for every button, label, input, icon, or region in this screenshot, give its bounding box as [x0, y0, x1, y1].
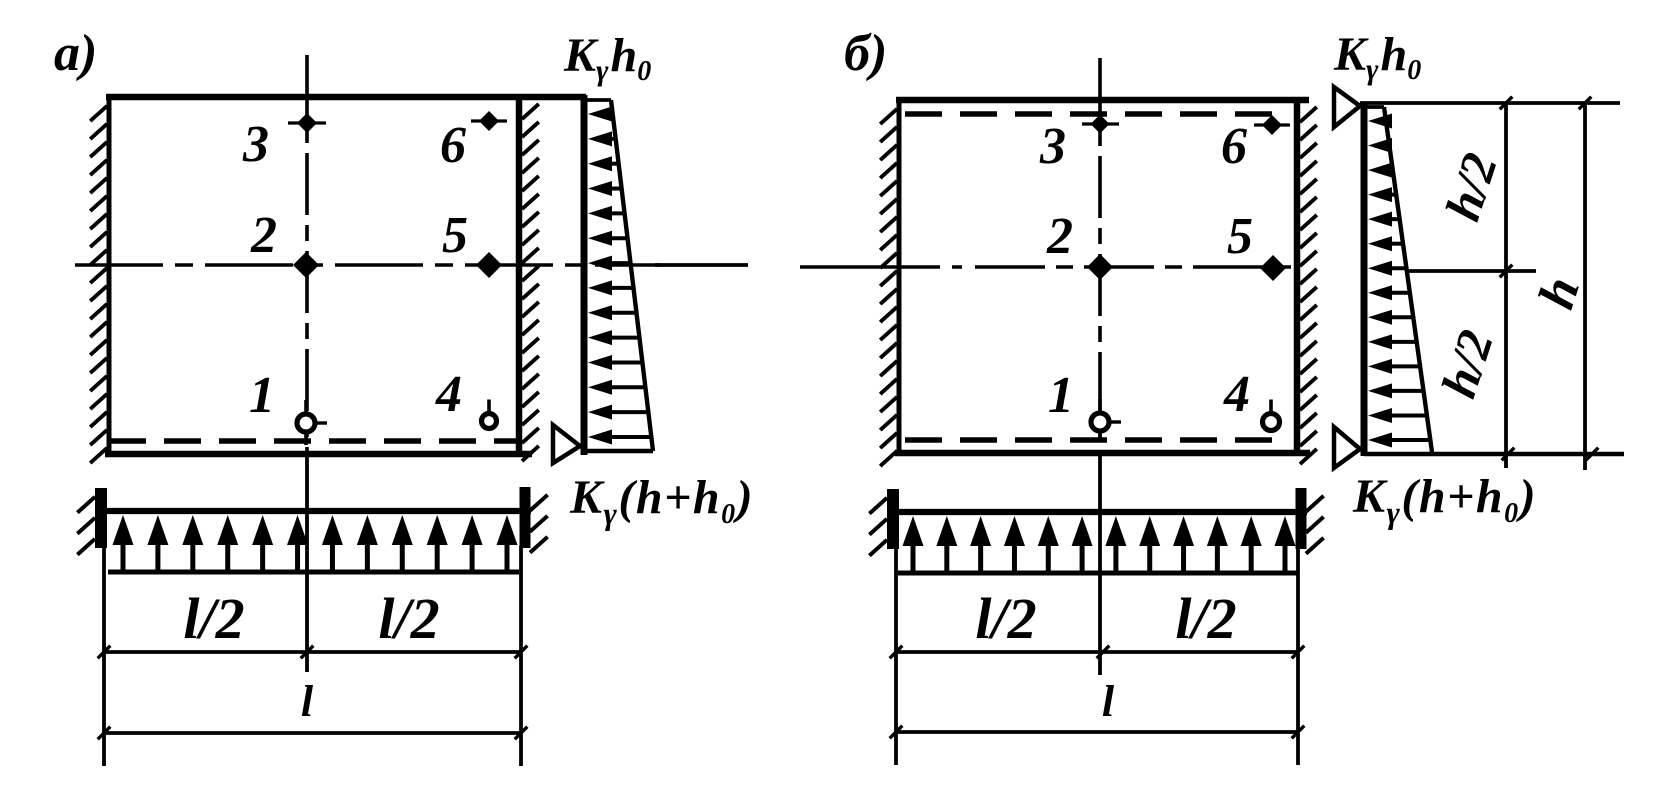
node 1 (b)	[1091, 399, 1121, 440]
label l/2 left (a)	[183, 586, 244, 651]
hatching: plate a right wall	[522, 104, 539, 461]
label 3 (b)	[1039, 118, 1066, 175]
svg-text:3: 3	[242, 116, 269, 173]
svg-text:1: 1	[249, 367, 275, 424]
beam load arrows a	[113, 515, 518, 572]
load baseline b	[1361, 104, 1368, 456]
svg-text:4: 4	[435, 366, 462, 423]
dim line a l	[104, 731, 521, 735]
label 4 (a)	[435, 366, 462, 423]
beam right support b	[1301, 488, 1324, 554]
label h/2 upper (b)	[1434, 146, 1508, 227]
panel label б)	[844, 25, 887, 82]
label 1 (a)	[249, 367, 275, 424]
svg-text:3: 3	[1039, 118, 1066, 175]
svg-text:1: 1	[1048, 367, 1074, 424]
dim ticks a l	[98, 727, 528, 740]
dashed line a (bottom)	[109, 438, 519, 444]
node 4 (b)	[1263, 400, 1280, 431]
dim tick b mid	[1500, 265, 1513, 278]
dim line b l	[896, 730, 1298, 734]
svg-text:5: 5	[1227, 208, 1253, 265]
vertical centerline b	[1098, 58, 1102, 675]
node 5 (b)	[1260, 255, 1286, 281]
node 2 (b)	[1087, 254, 1113, 280]
load trapezoid a top edge	[584, 98, 611, 102]
load trapezoid b slant edge	[1384, 107, 1432, 452]
beam a	[99, 508, 531, 514]
plate a: bottom edge	[105, 451, 532, 458]
label K_gamma*(h+h0) (b)	[1352, 470, 1537, 530]
mid line b (h/2)	[1408, 269, 1536, 273]
label 6 (a)	[440, 117, 466, 174]
svg-text:l/2: l/2	[1175, 586, 1236, 651]
svg-text:2: 2	[1046, 208, 1073, 265]
dim ticks a l/2	[98, 646, 528, 659]
extension line a left	[102, 546, 106, 766]
vertical centerline a	[305, 55, 309, 672]
dim ticks b l/2	[890, 646, 1305, 659]
label 5 (b)	[1227, 208, 1253, 265]
extension line b right	[1296, 547, 1300, 765]
label 6 (b)	[1221, 118, 1247, 175]
bottom line b (h dims)	[1364, 452, 1624, 457]
label l/2 right (b)	[1175, 586, 1236, 651]
svg-text:l: l	[1102, 677, 1115, 726]
label 2 (b)	[1046, 208, 1073, 265]
plate a: left wall	[107, 94, 112, 457]
beam left support a	[77, 488, 101, 555]
hatching: plate b right wall	[1300, 107, 1317, 464]
load baseline a	[581, 95, 588, 455]
dim line b l/2	[896, 650, 1298, 654]
label l/2 right (a)	[378, 586, 439, 651]
extension line a right	[519, 546, 523, 766]
label 3 (a)	[242, 116, 269, 173]
load arrows a	[588, 107, 651, 445]
beam load base a	[108, 570, 519, 575]
svg-text:6: 6	[440, 117, 466, 174]
horizontal centerline b	[800, 265, 962, 269]
label l (b)	[1102, 677, 1115, 726]
svg-text:2: 2	[250, 207, 277, 264]
h/2 dim line b	[1504, 103, 1508, 468]
svg-text:l/2: l/2	[975, 586, 1036, 651]
beam right support a	[525, 487, 548, 553]
beam left support b	[869, 489, 893, 556]
beam b	[889, 509, 1307, 515]
svg-text:l/2: l/2	[378, 586, 439, 651]
plate b: bottom edge	[895, 450, 1310, 457]
label 2 (a)	[250, 207, 277, 264]
dim ticks b bottom	[1502, 448, 1599, 461]
plate b: left wall	[897, 97, 902, 456]
horizontal centerline a	[75, 263, 748, 267]
beam load arrows b	[903, 516, 1296, 573]
load arrows b	[1368, 114, 1430, 448]
support triangle b (top)	[1334, 87, 1360, 127]
node 3 (a)	[288, 113, 326, 133]
plate b: top edge	[896, 97, 1309, 104]
svg-text:l/2: l/2	[183, 586, 244, 651]
node 3 (b)	[1082, 115, 1119, 134]
label h (b)	[1528, 270, 1591, 315]
h dim line b	[1583, 103, 1587, 470]
node 6 (b)	[1254, 115, 1290, 135]
label 1 (b)	[1048, 367, 1074, 424]
svg-text:5: 5	[442, 207, 468, 264]
node 4 (a)	[482, 400, 497, 429]
plate b: right wall	[1294, 97, 1301, 455]
svg-text:б): б)	[844, 25, 887, 82]
label 4 (b)	[1223, 366, 1250, 423]
hatching: plate a left wall	[90, 106, 107, 463]
dim ticks b top	[1500, 97, 1592, 110]
node 1 (a)	[297, 400, 327, 445]
beam load base b	[898, 571, 1297, 576]
load trapezoid b top edge	[1364, 105, 1384, 109]
svg-text:6: 6	[1221, 118, 1247, 175]
node 5 (a)	[476, 252, 502, 278]
top line b (h dims)	[1360, 101, 1620, 105]
load trapezoid a slant edge	[611, 100, 653, 451]
label l/2 left (b)	[975, 586, 1036, 651]
plate a: right wall	[516, 94, 523, 456]
svg-text:l: l	[301, 677, 314, 726]
dashed line b (top)	[905, 111, 1290, 117]
label K_gamma*h0 (a)	[563, 29, 651, 87]
dashed line b (bottom)	[905, 437, 1290, 443]
load trapezoid a bottom edge	[584, 449, 653, 454]
label l (a)	[301, 677, 314, 726]
panel label а)	[54, 25, 97, 82]
node 2 (a)	[293, 252, 319, 278]
svg-text:4: 4	[1223, 366, 1250, 423]
label h/2 lower (b)	[1430, 323, 1504, 404]
label K_gamma*h0 (b)	[1333, 28, 1421, 86]
svg-text:а): а)	[54, 25, 97, 82]
hatching: plate b left wall	[880, 109, 897, 466]
node 6 (a)	[471, 111, 507, 131]
plate a: top edge	[106, 94, 586, 101]
dim ticks b l	[890, 726, 1305, 739]
label 5 (a)	[442, 207, 468, 264]
extension line b left	[894, 547, 898, 765]
label K_gamma*(h+h0) (a)	[569, 471, 754, 531]
support triangle a (bottom)	[553, 425, 580, 463]
support triangle b (bottom)	[1334, 427, 1360, 468]
horizontal centerline b (inner)	[975, 265, 1300, 269]
dim line a l/2	[104, 650, 521, 654]
